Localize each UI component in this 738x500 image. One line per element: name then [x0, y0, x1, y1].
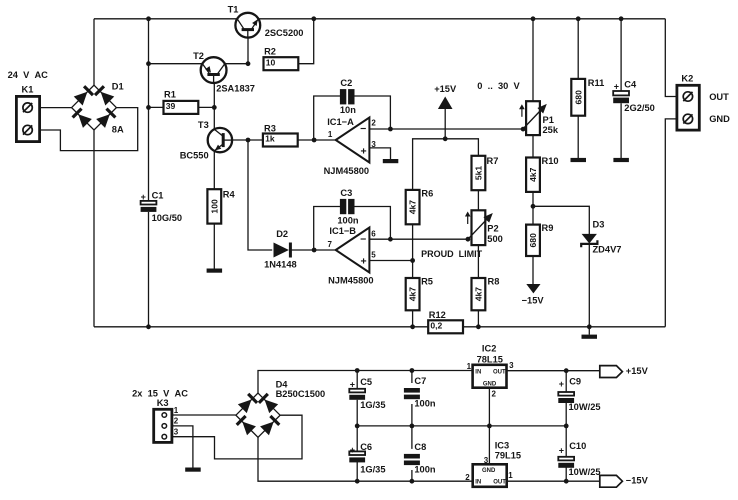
svg-text:680: 680: [573, 90, 583, 105]
svg-text:1: 1: [174, 406, 179, 415]
wire R1 leads: [149, 106, 215, 108]
connector K3: [132, 389, 188, 443]
svg-text:+15V: +15V: [626, 366, 649, 376]
junction mid rail / IC2 GND: [487, 424, 492, 429]
svg-text:3: 3: [174, 428, 179, 437]
op-amp IC1-B: [328, 226, 377, 285]
svg-text:39: 39: [166, 101, 176, 111]
power -15V flag: [600, 475, 649, 487]
label output voltage range: [477, 81, 520, 91]
wire K3 pin2 to ground: [167, 426, 193, 468]
svg-text:K1: K1: [22, 85, 34, 95]
junction mid rail / C7 C8: [410, 424, 415, 429]
junction top rail / C4: [619, 16, 624, 21]
bridge rectifier D1: [71, 82, 123, 135]
wire mid 0V rail: [357, 425, 566, 427]
ground R11: [571, 158, 587, 162]
svg-text:7: 7: [328, 240, 333, 249]
junction top rail / left rail: [146, 16, 151, 21]
wire +15V supply to R6 and R7: [413, 139, 479, 190]
resistor R7: [472, 156, 499, 190]
ground C4: [613, 158, 629, 162]
svg-text:BC550: BC550: [180, 150, 209, 160]
svg-text:10n: 10n: [340, 105, 356, 115]
svg-text:T1: T1: [228, 4, 239, 14]
svg-text:2: 2: [492, 389, 497, 398]
wire IC1-B non-inverting input to R6/R5: [369, 260, 412, 262]
wire IC2 GND pin to rail and IC3: [488, 388, 490, 465]
transistor T3: [180, 120, 232, 160]
junction minus rail / C6: [355, 479, 360, 484]
wire C2 feedback loop: [314, 96, 391, 140]
wire C8 leads: [411, 426, 413, 481]
svg-text:IN: IN: [475, 479, 481, 485]
svg-text:IN: IN: [475, 370, 481, 376]
connector K1: [8, 70, 49, 142]
capacitor C3: [337, 188, 359, 226]
capacitor C6: [349, 442, 385, 475]
junction rail / R5: [410, 324, 415, 329]
capacitor C4: [613, 80, 655, 114]
junction top rail / R11: [576, 16, 581, 21]
wire IC1-A non-inverting input to ground: [369, 148, 390, 159]
wire D4 minus rail to IC3 input: [258, 437, 473, 481]
svg-text:PROUD LIMIT: PROUD LIMIT: [421, 249, 482, 259]
wire D4 plus rail to IC2 input: [258, 371, 473, 394]
svg-text:0 .. 30 V: 0 .. 30 V: [477, 81, 520, 91]
svg-text:R3: R3: [264, 124, 276, 134]
power +15V arrow: [434, 84, 457, 109]
svg-text:2SA1837: 2SA1837: [216, 84, 255, 94]
capacitor C2: [340, 78, 356, 115]
svg-text:R11: R11: [588, 78, 605, 88]
wire node A to D2: [248, 140, 272, 250]
svg-text:C1: C1: [152, 190, 164, 200]
svg-text:680: 680: [528, 233, 538, 248]
junction left rail / T2: [146, 61, 151, 66]
junction R10 / R9 / D3 node B: [531, 204, 536, 209]
wire D2 cathode to IC1-B output: [291, 249, 336, 251]
wire R4 to ground: [213, 224, 215, 269]
svg-text:+: +: [141, 192, 146, 202]
capacitor C1: [141, 190, 183, 223]
svg-text:T2: T2: [193, 51, 204, 61]
svg-text:GND: GND: [709, 114, 730, 124]
svg-text:R4: R4: [223, 190, 236, 200]
wire P2 bottom to R8: [477, 245, 479, 278]
resistor R1: [163, 90, 198, 114]
svg-text:3: 3: [484, 456, 489, 465]
svg-text:1: 1: [328, 130, 333, 139]
svg-text:−15V: −15V: [522, 295, 545, 305]
wire bottom ground rail: [94, 326, 665, 328]
svg-text:P2: P2: [487, 224, 498, 234]
svg-text:ZD4V7: ZD4V7: [593, 244, 622, 254]
capacitor C9: [558, 376, 600, 412]
ground main rail at D3: [582, 327, 598, 339]
svg-text:10W/25: 10W/25: [569, 402, 601, 412]
svg-text:+15V: +15V: [434, 84, 457, 94]
junction D2 / IC1-B output / C3: [312, 248, 317, 253]
potentiometer P2: [465, 210, 503, 245]
junction mid rail / C9 C10: [564, 424, 569, 429]
junction IC1-A output / R3 / C2: [312, 138, 317, 143]
svg-text:IC3: IC3: [495, 441, 509, 451]
svg-text:C5: C5: [360, 377, 372, 387]
svg-text:1G/35: 1G/35: [360, 465, 385, 475]
wire C4 to ground: [620, 103, 622, 158]
resistor R5: [406, 277, 433, 311]
svg-text:5k1: 5k1: [474, 166, 484, 181]
svg-text:500: 500: [487, 234, 503, 244]
power -15V arrow: [522, 284, 545, 305]
wire R10 to node B to R9: [532, 191, 534, 225]
svg-text:D1: D1: [112, 82, 124, 92]
wire R3 to IC1-A output: [298, 139, 336, 141]
svg-text:R8: R8: [488, 277, 500, 287]
zener diode D3: [581, 219, 621, 254]
svg-text:R1: R1: [164, 90, 176, 100]
power +15V flag: [600, 366, 649, 378]
resistor R9: [526, 223, 553, 256]
junction T2 emitter rail / T1 base / R2: [246, 61, 251, 66]
wire IC1-A inverting input to P1 wiper: [369, 128, 523, 130]
junction +15V tee: [443, 136, 448, 141]
wire R11 top lead: [577, 19, 579, 79]
svg-text:1G/35: 1G/35: [360, 400, 385, 410]
svg-text:−15V: −15V: [626, 475, 649, 485]
svg-text:GND: GND: [483, 382, 497, 388]
wire C4 top lead: [620, 19, 622, 91]
svg-text:+: +: [559, 379, 564, 389]
wire T3 emitter to R4: [213, 151, 215, 189]
wire C9 leads: [565, 371, 567, 426]
wire C7 leads: [411, 371, 413, 426]
svg-text:4k7: 4k7: [474, 287, 484, 302]
junction T1 emitter / R2: [311, 16, 316, 21]
svg-text:78L15: 78L15: [477, 355, 503, 365]
svg-text:IC1−B: IC1−B: [329, 226, 356, 236]
potentiometer P1: [519, 101, 559, 135]
junction R1 / T2 base / T3 collector: [212, 105, 217, 110]
svg-text:4k7: 4k7: [408, 200, 418, 215]
wire IC3 output to -15V: [507, 480, 600, 482]
svg-text:2G2/50: 2G2/50: [624, 103, 655, 113]
svg-text:3: 3: [509, 361, 514, 370]
svg-text:NJM45800: NJM45800: [324, 166, 369, 176]
junction rail / R8: [476, 324, 481, 329]
svg-text:R2: R2: [264, 46, 276, 56]
wire P1 top lead: [532, 19, 534, 101]
svg-text:25k: 25k: [543, 125, 559, 135]
svg-text:+: +: [361, 145, 367, 157]
junction left rail / R1: [146, 105, 151, 110]
transistor T2: [193, 51, 255, 94]
wire IC2 output to +15V: [507, 370, 600, 372]
svg-text:D4: D4: [276, 379, 289, 389]
svg-text:C8: C8: [414, 442, 426, 452]
svg-text:−: −: [360, 233, 366, 245]
wire D3 cathode to rail: [588, 244, 590, 326]
svg-text:24 V AC: 24 V AC: [8, 70, 49, 80]
resistor R11: [571, 78, 604, 116]
junction minus rail / C8: [410, 479, 415, 484]
svg-text:C10: C10: [569, 441, 586, 451]
ground R4: [207, 269, 223, 273]
junction plus rail / C7: [410, 368, 415, 373]
resistor R10: [526, 156, 558, 192]
junction IC2 out / C9: [564, 368, 569, 373]
wire T1 base: [247, 30, 249, 64]
svg-text:R12: R12: [429, 310, 446, 320]
svg-text:2SC5200: 2SC5200: [265, 28, 304, 38]
svg-text:2: 2: [465, 473, 470, 482]
regulator IC3: [465, 441, 521, 487]
ground IC1-A pin 3: [383, 159, 399, 163]
svg-text:3: 3: [371, 140, 376, 149]
wire IC1-B inverting input to P2 wiper: [369, 238, 468, 240]
svg-text:8A: 8A: [112, 124, 124, 134]
svg-text:R5: R5: [421, 277, 433, 287]
wire K3 pin3 loop to bridge D4 right: [167, 415, 303, 459]
svg-text:C7: C7: [414, 376, 426, 386]
svg-text:79L15: 79L15: [495, 450, 521, 460]
wire bridge D1 top lead: [93, 19, 95, 86]
diode D2: [264, 229, 297, 269]
wire K2 GND to ground rail: [665, 119, 677, 327]
wire C6 leads: [356, 426, 358, 481]
transistor T1: [228, 4, 304, 38]
capacitor C8: [404, 442, 436, 475]
wire bridge D1 bottom lead to ground rail: [93, 130, 95, 327]
wire R5 bottom to rail: [412, 310, 414, 327]
svg-text:100n: 100n: [414, 399, 436, 409]
svg-text:OUT: OUT: [709, 92, 729, 102]
svg-text:100n: 100n: [337, 216, 359, 226]
wire T3 base to R3 and node A: [225, 139, 263, 141]
wire R8 bottom to rail: [477, 310, 479, 327]
label proud limit: [421, 249, 482, 259]
svg-text:2x 15 V AC: 2x 15 V AC: [132, 389, 188, 399]
svg-text:R9: R9: [542, 223, 554, 233]
junction P2 wiper: [466, 237, 471, 242]
svg-text:P1: P1: [543, 115, 554, 125]
wire C10 leads: [565, 426, 567, 481]
svg-text:+: +: [350, 445, 355, 455]
resistor R6: [406, 188, 434, 224]
junction rail / C1: [146, 324, 151, 329]
svg-text:1k: 1k: [265, 134, 275, 144]
svg-text:+: +: [559, 446, 564, 456]
wire R2 right to emitter rail: [298, 19, 314, 64]
svg-text:IC2: IC2: [482, 343, 496, 353]
junction P1 wiper: [521, 127, 526, 132]
junction C2 / inverting line: [388, 127, 393, 132]
resistor R8: [472, 277, 500, 311]
junction plus rail / C5: [355, 368, 360, 373]
wire R9 to -15V arrow: [532, 256, 534, 285]
svg-text:+: +: [361, 256, 367, 268]
svg-text:1: 1: [467, 362, 472, 371]
bridge rectifier D4: [236, 379, 326, 437]
resistor R3: [263, 124, 298, 147]
resistor R12: [428, 310, 463, 334]
capacitor C5: [349, 377, 385, 410]
resistor R4: [207, 189, 235, 223]
regulator IC2: [467, 343, 514, 398]
junction T3 base / D2 branch: [246, 138, 251, 143]
svg-text:C3: C3: [340, 188, 352, 198]
wire R6 bottom to pin5 line and R5: [412, 224, 414, 278]
svg-text:2: 2: [174, 417, 179, 426]
svg-text:T3: T3: [198, 120, 209, 130]
svg-text:C2: C2: [340, 78, 352, 88]
capacitor C10: [558, 441, 600, 477]
svg-text:R10: R10: [542, 156, 559, 166]
svg-text:100: 100: [209, 199, 219, 214]
wire T2 emitter to rail: [149, 63, 249, 65]
wire P1 to R10: [532, 135, 534, 158]
junction mid rail / C5 C6: [355, 424, 360, 429]
junction R6 / R5 / pin5: [410, 258, 415, 263]
wire R11 to ground: [577, 116, 579, 159]
svg-text:D3: D3: [593, 219, 605, 229]
svg-text:10: 10: [266, 57, 276, 67]
svg-text:5: 5: [371, 251, 376, 260]
svg-text:C6: C6: [360, 442, 372, 452]
svg-text:D2: D2: [276, 229, 288, 239]
wire top positive rail: [94, 18, 665, 20]
wire left +V rail: [148, 19, 150, 327]
wire output to K2 OUT: [665, 19, 677, 97]
svg-text:10G/50: 10G/50: [152, 213, 183, 223]
wire node B to D3: [533, 206, 589, 234]
capacitor C7: [404, 376, 436, 409]
wire R7 bottom to P2: [477, 190, 479, 211]
connector K2: [677, 74, 730, 131]
svg-text:−: −: [360, 123, 366, 135]
svg-text:R6: R6: [421, 188, 433, 198]
svg-text:2: 2: [371, 118, 376, 127]
wire K1 terminal 2 loop to bridge right: [32, 108, 138, 151]
svg-text:+: +: [350, 379, 355, 389]
wire C5 leads: [356, 371, 358, 426]
wire T2 base / T3 collector: [213, 74, 215, 129]
svg-text:IC1−A: IC1−A: [327, 117, 354, 127]
svg-text:100n: 100n: [414, 465, 436, 475]
svg-text:6: 6: [371, 230, 376, 239]
svg-text:4k7: 4k7: [528, 167, 538, 182]
wire +15V arrow stem: [444, 108, 446, 139]
wire K1 terminal 1 to bridge: [32, 107, 72, 109]
svg-text:+: +: [614, 82, 619, 92]
junction IC3 out / C10: [564, 479, 569, 484]
svg-text:10W/25: 10W/25: [569, 467, 601, 477]
wire C3 feedback loop: [314, 207, 391, 251]
svg-text:K3: K3: [157, 398, 169, 408]
svg-text:OUT: OUT: [493, 479, 506, 485]
junction rail / D3 ground: [587, 324, 592, 329]
wire K3 pin1 to bridge D4: [167, 414, 236, 416]
svg-text:4k7: 4k7: [408, 287, 418, 302]
svg-text:0,2: 0,2: [430, 320, 442, 330]
junction C3 / pin6 line: [388, 237, 393, 242]
junction top rail / P1: [531, 16, 536, 21]
svg-text:R7: R7: [487, 156, 499, 166]
svg-text:OUT: OUT: [493, 370, 506, 376]
resistor R2: [264, 46, 299, 70]
ground K3 pin2: [185, 468, 201, 472]
svg-text:K2: K2: [681, 74, 693, 84]
op-amp IC1-A: [324, 117, 377, 176]
svg-text:1: 1: [508, 471, 513, 480]
svg-text:B250C1500: B250C1500: [276, 389, 326, 399]
svg-text:C4: C4: [624, 80, 637, 90]
svg-text:1N4148: 1N4148: [264, 260, 297, 270]
svg-text:GND: GND: [482, 468, 496, 474]
svg-text:C9: C9: [569, 376, 581, 386]
svg-text:NJM45800: NJM45800: [328, 276, 373, 286]
